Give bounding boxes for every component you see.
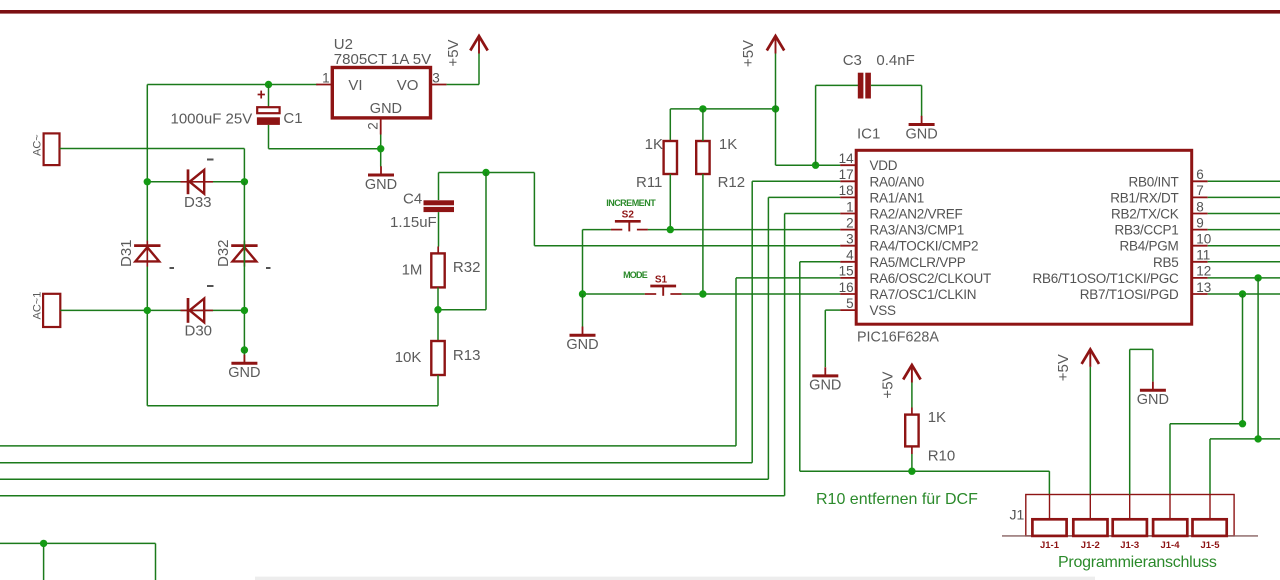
svg-text:S2: S2 [622, 210, 635, 221]
wire RB6 PGC net [1208, 277, 1280, 279]
voltage regulator U2 [332, 36, 431, 118]
svg-text:VSS: VSS [870, 303, 897, 318]
supply +5V at J1-2 [1055, 349, 1099, 381]
svg-text:MODE: MODE [623, 270, 648, 280]
svg-text:VO: VO [397, 77, 419, 94]
svg-text:2: 2 [846, 215, 854, 230]
wire feedback branch [438, 173, 486, 310]
pad J1-4 [1153, 495, 1187, 551]
svg-text:GND: GND [228, 365, 260, 381]
svg-text:1K: 1K [719, 136, 737, 153]
pin 7 IC1 RB1/RX/DT [1110, 183, 1207, 205]
svg-text:S1: S1 [655, 275, 668, 286]
capacitor C3 [843, 52, 915, 99]
diode D32 [215, 239, 271, 268]
pin 18 IC1 RA1/AN1 [839, 183, 924, 205]
pin 1 U2 [316, 71, 332, 86]
resistor R11 [636, 136, 677, 191]
wire C3 left branch [816, 85, 859, 165]
svg-text:Programmieranschluss: Programmieranschluss [1058, 554, 1217, 571]
pin 8 IC1 RB2/TX/CK [1111, 199, 1208, 221]
wire RB1 net to edge [1208, 196, 1280, 198]
pad J1-2 [1073, 495, 1107, 551]
wire switches to ground [582, 294, 584, 327]
wire bottom left net [0, 543, 156, 580]
capacitor C1 [171, 91, 303, 128]
wire RB3 net to edge [1208, 229, 1280, 231]
wire U2 pin2 to ground node [380, 135, 382, 167]
svg-text:2: 2 [366, 122, 381, 130]
wire R11 R12 top rail [670, 109, 775, 141]
wire RA4 to C4 [534, 173, 840, 246]
wire RA7 net to S1 [583, 293, 841, 295]
svg-text:+5V: +5V [445, 39, 462, 66]
svg-text:RB1/RX/DT: RB1/RX/DT [1110, 190, 1178, 205]
svg-text:1M: 1M [402, 262, 423, 279]
svg-text:VDD: VDD [870, 158, 898, 173]
svg-text:D33: D33 [184, 194, 212, 211]
svg-text:GND: GND [905, 126, 937, 142]
pin 3 U2 [431, 71, 447, 86]
wire R10 bottom [911, 446, 913, 471]
svg-text:J1-5: J1-5 [1200, 540, 1220, 551]
svg-text:D32: D32 [215, 239, 232, 267]
wire U2 output to +5V [447, 54, 479, 85]
svg-text:1.15uF: 1.15uF [390, 214, 437, 231]
svg-text:GND: GND [1137, 392, 1169, 408]
svg-text:18: 18 [839, 183, 854, 198]
pad J1-5 [1193, 495, 1227, 551]
pin 12 IC1 RB6/T1OSO/T1CKI/PGC [1032, 264, 1211, 286]
node VDD C3 junction [812, 162, 819, 169]
resistor R13 [395, 341, 481, 375]
wire D33 row [147, 181, 244, 183]
svg-text:8: 8 [1196, 199, 1204, 214]
svg-text:15: 15 [839, 264, 854, 279]
pin 2 IC1 RA3/AN3/CMP1 [840, 215, 964, 237]
svg-text:GND: GND [370, 101, 402, 117]
svg-text:R32: R32 [453, 259, 481, 276]
svg-text:RA4/TOCKI/CMP2: RA4/TOCKI/CMP2 [870, 239, 979, 254]
svg-text:RB5: RB5 [1153, 255, 1179, 270]
wire RA6 net [0, 278, 840, 446]
svg-text:PIC16F628A: PIC16F628A [857, 330, 939, 346]
pin 5 IC1 VSS [840, 296, 896, 318]
connector AC~1 bottom [32, 292, 61, 327]
node C4 feedback junction [482, 169, 489, 176]
label INCREMENT [606, 198, 656, 208]
pin 14 IC1 VDD [839, 151, 898, 173]
svg-text:1: 1 [846, 199, 854, 214]
pin 13 IC1 RB7/T1OSI/PGD [1080, 280, 1212, 302]
wire RB7 PGD net [1208, 293, 1280, 295]
switch S2 [611, 210, 648, 232]
svg-text:RA5/MCLR/VPP: RA5/MCLR/VPP [870, 255, 966, 270]
node R32 R13 junction [434, 306, 441, 313]
connector J1 outline [1002, 495, 1258, 536]
svg-text:RA3/AN3/CMP1: RA3/AN3/CMP1 [870, 223, 965, 238]
wire VDD supply [776, 109, 841, 165]
wire bridge bottom [147, 405, 438, 407]
svg-text:RB4/PGM: RB4/PGM [1119, 239, 1178, 254]
pin 15 IC1 RA6/OSC2/CLKOUT [839, 264, 991, 286]
resistor R12 [696, 136, 745, 191]
node S1 left junction [579, 290, 586, 297]
wire bottom faint cut-off row [255, 577, 1095, 580]
wire R12 bottom [702, 109, 704, 294]
wire C4 to R32 [437, 212, 439, 253]
wire C4 top node [439, 173, 535, 201]
svg-text:J1-3: J1-3 [1120, 540, 1139, 551]
wire left bridge rail [146, 85, 148, 406]
pin 3 IC1 RA4/TOCKI/CMP2 [840, 232, 978, 254]
label Programmieranschluss [1058, 554, 1217, 571]
svg-text:3: 3 [846, 232, 854, 247]
wire J1-3 to ground [1130, 349, 1153, 494]
svg-text:RA0/AN0: RA0/AN0 [870, 174, 925, 189]
svg-text:GND: GND [566, 337, 598, 353]
wire RB0 net to edge [1208, 180, 1280, 182]
node PGC corner junction [1254, 435, 1261, 442]
connector AC~ top [32, 133, 60, 165]
node D33 right [241, 178, 248, 185]
wire AC~ to bridge [60, 149, 245, 182]
wire +5V to R10 [911, 383, 913, 415]
pin 6 IC1 RB0/INT [1128, 167, 1207, 189]
node RB6 junction [1254, 274, 1261, 281]
svg-text:D31: D31 [118, 239, 135, 267]
svg-text:RA6/OSC2/CLKOUT: RA6/OSC2/CLKOUT [870, 271, 992, 286]
node +5V rail junction [772, 105, 779, 112]
svg-text:RA7/OSC1/CLKIN: RA7/OSC1/CLKIN [870, 287, 977, 302]
pin 11 IC1 RB5 [1153, 248, 1210, 270]
node D33 left [144, 178, 151, 185]
svg-text:R10: R10 [928, 447, 956, 464]
svg-text:IC1: IC1 [857, 126, 880, 143]
svg-text:13: 13 [1196, 280, 1211, 295]
label R10 entfernen fuer DCF [816, 491, 978, 508]
node RB7 junction [1239, 290, 1246, 297]
svg-text:11: 11 [1196, 248, 1210, 263]
svg-text:R10 entfernen für DCF: R10 entfernen für DCF [816, 491, 978, 508]
resistor R32 [402, 253, 481, 287]
wire right bridge rail [243, 182, 245, 350]
pin 1 IC1 RA2/AN2/VREF [840, 199, 962, 221]
wire C1 bottom [269, 125, 381, 149]
node bottom left junction [40, 540, 47, 547]
wire S2 to S1 left leg [582, 230, 584, 294]
svg-text:INCREMENT: INCREMENT [606, 198, 656, 208]
pin 9 IC1 RB3/CCP1 [1114, 215, 1207, 237]
supply +5V above VDD [740, 36, 784, 67]
diode D30 [181, 286, 214, 340]
wire RA1 net [0, 197, 840, 479]
node D30 right junction [241, 307, 248, 314]
svg-text:+5V: +5V [1055, 354, 1072, 381]
pin 4 IC1 RA5/MCLR/VPP [840, 248, 966, 270]
wire R32 to R13 [437, 287, 439, 341]
diode D33 [181, 160, 214, 212]
diode D31 [118, 239, 174, 268]
supply +5V at R10 [880, 365, 921, 399]
svg-text:17: 17 [839, 167, 854, 182]
op-amp U1 IC1 PIC16F628A body [856, 126, 1191, 346]
ground GND bridge [228, 350, 260, 381]
pin 17 IC1 RA0/AN0 [839, 167, 924, 189]
svg-text:1: 1 [322, 71, 330, 86]
wire PGC to J1-5 [1210, 278, 1280, 495]
wire RB2 net to edge [1208, 213, 1280, 215]
wire R11 bottom [669, 174, 671, 230]
svg-text:+5V: +5V [740, 40, 757, 67]
svg-text:12: 12 [1196, 264, 1211, 279]
svg-text:VI: VI [348, 77, 362, 94]
svg-text:RA2/AN2/VREF: RA2/AN2/VREF [870, 207, 963, 222]
wire RA3 net to S2 [583, 229, 841, 231]
pad J1-3 [1113, 495, 1147, 551]
svg-text:16: 16 [839, 280, 854, 295]
node S1 R12 junction [699, 290, 706, 297]
svg-text:R11: R11 [636, 174, 662, 191]
label MODE [623, 270, 648, 280]
svg-text:RB3/CCP1: RB3/CCP1 [1114, 223, 1178, 238]
wire +5V to J1-2 [1089, 367, 1091, 495]
capacitor C4 [390, 190, 454, 231]
svg-text:D30: D30 [185, 323, 213, 340]
resistor R10 [905, 409, 955, 464]
wire PGD to J1-4 [1170, 294, 1243, 495]
pin 10 IC1 RB4/PGM [1119, 232, 1211, 254]
svg-text:0.4nF: 0.4nF [876, 52, 914, 69]
svg-text:J1-1: J1-1 [1040, 540, 1060, 551]
wire VSS to ground [825, 310, 840, 367]
svg-text:RA1/AN1: RA1/AN1 [870, 190, 925, 205]
svg-text:C3: C3 [843, 52, 862, 69]
supply +5V at U2 output [445, 36, 488, 67]
svg-text:RB7/T1OSI/PGD: RB7/T1OSI/PGD [1080, 287, 1179, 302]
svg-text:3: 3 [432, 71, 440, 86]
svg-text:R13: R13 [453, 347, 481, 364]
svg-text:C4: C4 [403, 190, 422, 207]
svg-text:10: 10 [1196, 232, 1211, 247]
svg-text:RB2/TX/CK: RB2/TX/CK [1111, 207, 1179, 222]
ground GND at J1-3 [1137, 382, 1169, 409]
wire RB5 net to edge [1208, 261, 1280, 263]
svg-text:J1-2: J1-2 [1081, 540, 1100, 551]
svg-text:AC~: AC~ [32, 134, 44, 156]
svg-text:GND: GND [809, 378, 841, 394]
svg-text:AC~1: AC~1 [32, 292, 44, 320]
svg-text:7805CT 1A 5V: 7805CT 1A 5V [334, 51, 431, 68]
svg-text:6: 6 [1196, 167, 1204, 182]
pin 16 IC1 RA7/OSC1/CLKIN [839, 280, 977, 302]
node U2 ground junction [377, 145, 384, 152]
wire R13 bottom [437, 375, 439, 406]
node R10 junction [908, 468, 915, 475]
ground GND at C3 [905, 116, 937, 143]
wire C1 branch [268, 85, 270, 108]
svg-text:+5V: +5V [880, 371, 897, 398]
svg-text:1K: 1K [928, 409, 946, 426]
svg-text:10K: 10K [395, 349, 422, 366]
wire RA2 net [0, 214, 840, 496]
wire RB4 net to edge [1208, 245, 1280, 247]
svg-text:J1-4: J1-4 [1160, 540, 1180, 551]
wire RA0 net [0, 181, 840, 462]
svg-text:4: 4 [846, 248, 854, 263]
svg-text:5: 5 [846, 296, 854, 311]
ground GND at VSS [809, 367, 841, 394]
node R12 top junction [699, 105, 706, 112]
svg-text:GND: GND [365, 177, 397, 193]
wire AC~1 to bridge [60, 309, 244, 311]
pin 2 U2 [366, 118, 381, 135]
ground GND switches [566, 327, 598, 354]
wire RA5 net to R10 and J1-1 [800, 262, 1050, 495]
svg-text:1K: 1K [645, 136, 663, 153]
node bridge ground junction [241, 346, 248, 353]
wire C3 right branch [871, 85, 922, 116]
ground GND under U2 [365, 166, 397, 193]
svg-text:RB6/T1OSO/T1CKI/PGC: RB6/T1OSO/T1CKI/PGC [1032, 271, 1179, 286]
node C1 top junction [265, 81, 272, 88]
wire AC input to bridge rail [147, 84, 317, 86]
svg-text:C1: C1 [283, 110, 302, 127]
svg-text:1000uF 25V: 1000uF 25V [171, 111, 253, 128]
switch S1 [645, 275, 682, 296]
svg-text:RB0/INT: RB0/INT [1128, 174, 1178, 189]
node S2 R11 junction [667, 226, 674, 233]
svg-text:7: 7 [1196, 183, 1204, 198]
svg-text:14: 14 [839, 151, 855, 166]
node PGD corner junction [1239, 420, 1246, 427]
pad J1-1 [1032, 495, 1066, 551]
svg-text:R12: R12 [718, 174, 746, 191]
wire +5V arrow stem [775, 54, 777, 109]
node AC~1 rail junction [144, 307, 151, 314]
svg-text:9: 9 [1196, 215, 1204, 230]
svg-text:J1: J1 [1010, 506, 1025, 522]
border frame top rule [0, 10, 1280, 14]
